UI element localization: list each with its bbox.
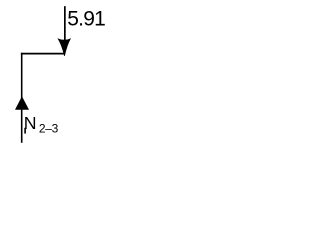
- stray stem under N: [24, 128, 26, 134]
- svg-text:5.91: 5.91: [67, 7, 105, 30]
- wire: horizontal segment: [21, 53, 65, 55]
- arrowhead: downward arrow tip meeting horizontal wire: [57, 38, 71, 56]
- svg-text:2–3: 2–3: [39, 121, 59, 135]
- wire: vertical segment on left (shaft of upward arrow): [21, 53, 23, 143]
- arrowhead: upward arrow mid-line: [15, 96, 29, 110]
- wire: vertical shaft of downward force arrow: [64, 6, 66, 43]
